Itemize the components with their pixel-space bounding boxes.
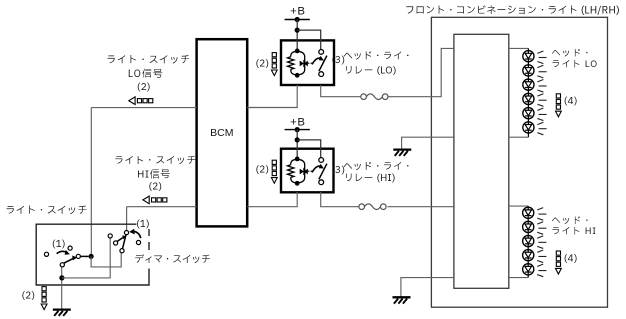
svg-text:(2): (2) xyxy=(148,181,162,195)
fuse (HI) xyxy=(359,204,386,210)
wire LED HI ground xyxy=(401,278,454,298)
wire fuse LO to light xyxy=(388,48,454,96)
wire blade pivot to ground xyxy=(61,267,63,310)
dimmer blade 1 xyxy=(117,235,126,241)
wire LED HI feed xyxy=(509,205,528,207)
wire node to dimmer low contact xyxy=(91,253,121,267)
light switch contact c xyxy=(76,254,80,258)
svg-text:リレー (LO): リレー (LO) xyxy=(344,64,396,78)
svg-text:フロント・コンビネーション・ライト (LH/RH): フロント・コンビネーション・ライト (LH/RH) xyxy=(405,4,620,19)
wire LED HI chain xyxy=(527,206,529,278)
dimmer contact right xyxy=(136,240,140,244)
dimmer switch label xyxy=(134,253,211,267)
svg-text:(2): (2) xyxy=(255,57,269,71)
diode in relay (HI) xyxy=(300,168,308,175)
headlight LO label xyxy=(551,47,598,72)
wire LED LO chain xyxy=(527,48,529,137)
node branch dot (HI) xyxy=(295,137,300,142)
relay contacts (LO) xyxy=(319,50,327,77)
light switch contact a xyxy=(44,252,48,256)
dimmer contact mid xyxy=(114,241,118,245)
node +B dot (HI) xyxy=(295,127,300,132)
light switch contact b xyxy=(68,246,72,250)
ground light switch xyxy=(53,310,71,316)
LED LO light rays xyxy=(537,51,546,135)
svg-text:ライト・スイッチ: ライト・スイッチ xyxy=(5,204,87,219)
resistor in relay (LO) xyxy=(288,57,294,70)
wire +B branch to contact (LO) xyxy=(297,30,321,49)
svg-text:(2): (2) xyxy=(137,81,151,95)
dimmer arrow xyxy=(129,229,141,238)
svg-text:LO信号: LO信号 xyxy=(128,67,164,82)
relay box (LO) xyxy=(281,40,334,85)
svg-text:(1): (1) xyxy=(52,238,66,252)
svg-text:ヘッド・ライ・: ヘッド・ライ・ xyxy=(343,50,413,64)
relay actuator arrow (LO) xyxy=(308,56,324,65)
light switch LO signal label xyxy=(106,53,190,95)
node branch dot (LO) xyxy=(295,28,300,33)
headlight LO LEDs xyxy=(523,51,534,133)
wire LED HI return xyxy=(509,277,528,279)
relay name (LO) xyxy=(343,50,413,78)
headlight HI label xyxy=(551,215,597,240)
headlight HI LEDs xyxy=(523,207,534,275)
ground LED LO xyxy=(393,150,411,156)
relay actuator arrow (HI) xyxy=(308,164,324,173)
front combination light outer box xyxy=(431,17,607,307)
svg-text:(1): (1) xyxy=(136,218,150,232)
wire LED LO ground xyxy=(402,137,454,149)
link contact to node xyxy=(81,255,89,257)
ground LED HI xyxy=(393,297,411,303)
relay coil (LO) xyxy=(291,49,305,78)
svg-text:リレー (HI): リレー (HI) xyxy=(344,172,395,186)
svg-text:ディマ・スイッチ: ディマ・スイッチ xyxy=(134,253,211,267)
LED HI light rays xyxy=(537,208,546,277)
resistor in relay (HI) xyxy=(288,165,294,178)
relay contacts (HI) xyxy=(319,158,327,185)
wire LED LO return xyxy=(509,136,529,138)
node ground junction xyxy=(59,275,64,280)
light switch label xyxy=(5,204,87,219)
svg-text:(2): (2) xyxy=(255,164,269,178)
node +B dot (LO) xyxy=(295,17,300,22)
fuse (LO) xyxy=(361,94,388,100)
light switch arrow xyxy=(57,250,70,255)
label (3) relay HI xyxy=(331,164,345,178)
dimmer contact left xyxy=(108,234,112,238)
wire LO signal down to light switch xyxy=(90,108,92,257)
svg-text:ライト・スイッチ: ライト・スイッチ xyxy=(114,154,197,168)
svg-text:+B: +B xyxy=(290,117,305,129)
wire HI signal to BCM xyxy=(127,206,197,208)
wire HI signal down to dimmer xyxy=(126,207,128,231)
LED module inner box xyxy=(454,34,509,288)
light switch HI signal label xyxy=(114,154,197,194)
light switch box xyxy=(36,224,149,285)
+B supply (LO) xyxy=(285,5,310,19)
BCM label xyxy=(210,127,233,139)
wire ground junction to dimmer left contact xyxy=(62,238,110,278)
front combination light label xyxy=(405,4,620,19)
wire +B branch to contact (HI) xyxy=(297,140,321,158)
wire LO signal to BCM xyxy=(91,107,196,109)
connector (4) HI xyxy=(556,251,578,274)
connector symbol LO signal xyxy=(129,97,153,105)
svg-text:(2): (2) xyxy=(21,290,35,304)
svg-text:BCM: BCM xyxy=(210,127,233,139)
relay box (HI) xyxy=(281,149,334,193)
svg-text:ライト LO: ライト LO xyxy=(551,58,598,72)
connector (4) LO xyxy=(556,94,578,117)
svg-text:ライト HI: ライト HI xyxy=(551,225,597,239)
wire +B down to coil (LO) xyxy=(296,20,298,51)
wire +B down to coil (HI) xyxy=(296,130,298,159)
dimmer contact low xyxy=(120,249,124,253)
node light switch output xyxy=(89,254,94,259)
wire LED LO feed xyxy=(509,47,529,49)
label (1) light switch xyxy=(52,238,66,252)
dimmer blade 2 xyxy=(123,235,127,249)
svg-text:+B: +B xyxy=(290,5,305,17)
connector (2) at relay HI xyxy=(255,160,277,183)
svg-text:(4): (4) xyxy=(564,252,578,266)
connector symbol HI signal xyxy=(143,196,167,204)
connector (2) at relay LO xyxy=(255,53,277,76)
wire BCM to relay LO coil xyxy=(247,85,297,108)
svg-text:ライト・スイッチ: ライト・スイッチ xyxy=(106,53,190,68)
wire relay LO output xyxy=(321,85,361,97)
label (1) dimmer xyxy=(136,218,150,232)
label (3) relay LO xyxy=(331,54,345,68)
light switch blade xyxy=(60,256,77,267)
relay coil (HI) xyxy=(291,157,305,186)
diode in relay (LO) xyxy=(300,60,308,67)
connector (2) light switch xyxy=(21,287,47,310)
+B supply (HI) xyxy=(285,117,310,130)
relay name (HI) xyxy=(343,161,413,187)
BCM box xyxy=(197,39,248,226)
wire BCM to relay HI coil xyxy=(247,192,297,207)
dimmer pivot xyxy=(124,231,128,235)
wire fuse HI to light xyxy=(388,206,454,208)
svg-text:(4): (4) xyxy=(564,95,578,109)
wire relay HI output xyxy=(321,192,359,207)
